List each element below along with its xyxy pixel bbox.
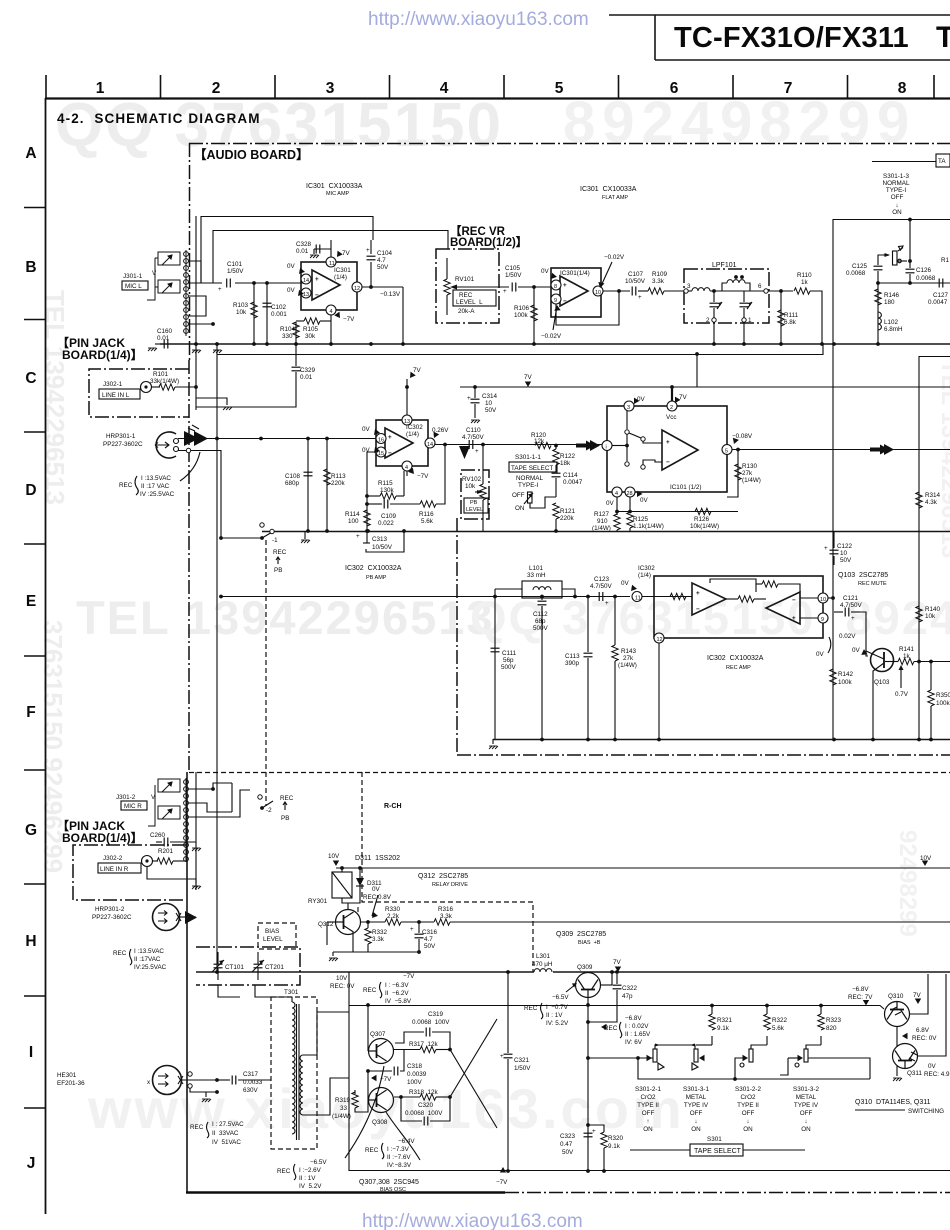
svg-text:TYPE II: TYPE II: [737, 1102, 759, 1109]
svg-text:+: +: [500, 1053, 504, 1060]
svg-text:TYPE-I: TYPE-I: [886, 187, 907, 194]
switch S301-3-2: [798, 1055, 804, 1061]
svg-text:【AUDIO BOARD】: 【AUDIO BOARD】: [194, 147, 309, 162]
svg-text:+: +: [605, 600, 609, 607]
svg-text:10V: 10V: [336, 975, 348, 982]
svg-text:+: +: [388, 434, 392, 441]
svg-text:0V: 0V: [928, 1063, 937, 1070]
svg-text:Q312 2SC2785: Q312 2SC2785: [418, 873, 468, 880]
label -7V pin4: [334, 312, 342, 320]
svg-text:−6.8V: −6.8V: [625, 1015, 642, 1022]
transistor Q312: [336, 910, 361, 935]
wire switch4 feed: [788, 1057, 800, 1059]
ground trunk stubs: [192, 350, 201, 353]
svg-text:4: 4: [405, 465, 408, 471]
connector J301-1 pin chain: [184, 250, 189, 336]
svg-text:1: 1: [748, 317, 752, 324]
svg-text:C121: C121: [843, 595, 859, 602]
svg-text:R317 12k: R317 12k: [409, 1041, 439, 1048]
ic302 rec box: [654, 576, 823, 638]
svg-text:+: +: [592, 1128, 596, 1135]
svg-text:IV:25.5VAC: IV:25.5VAC: [134, 964, 167, 971]
svg-text:ON: ON: [515, 505, 525, 512]
svg-text:7V: 7V: [342, 250, 351, 257]
svg-text:R114: R114: [345, 511, 360, 518]
svg-text:4.7: 4.7: [424, 936, 433, 943]
svg-text:3.3k: 3.3k: [372, 936, 385, 943]
switch S301-2-2: [743, 1055, 749, 1061]
svg-text:−6.5V: −6.5V: [552, 994, 569, 1001]
svg-text:0.02V: 0.02V: [839, 633, 856, 640]
svg-text:HRP301-2: HRP301-2: [95, 906, 125, 913]
svg-text:9: 9: [821, 617, 824, 623]
svg-text:E: E: [26, 593, 36, 610]
pin 9: [818, 613, 828, 623]
svg-text:3: 3: [627, 405, 630, 411]
svg-text:0.7V: 0.7V: [895, 691, 909, 698]
feedback wire top inside box: [710, 579, 756, 592]
svg-text:REC: 4.9: REC: 4.9: [924, 1071, 950, 1078]
audio board bottom edge: [186, 1191, 505, 1193]
svg-text:Q309: Q309: [577, 964, 593, 971]
svg-text:REC: REC: [273, 549, 287, 556]
wire main vertical trunk 2: [216, 344, 218, 972]
svg-text:TEL 13942296513: TEL 13942296513: [76, 591, 495, 644]
switch rec/pb R: [258, 795, 262, 799]
svg-text:REC MUTE: REC MUTE: [858, 581, 887, 587]
wire 10V rail row H-I: [196, 971, 534, 973]
svg-text:ON: ON: [892, 209, 902, 216]
svg-text:C316: C316: [422, 929, 438, 936]
pin 2: [667, 401, 677, 411]
switch S301 rec/pb L contact: [260, 523, 264, 527]
svg-text:REC: REC: [280, 795, 294, 802]
svg-text:4: 4: [440, 80, 449, 97]
svg-text:PB AMP: PB AMP: [366, 575, 387, 581]
label S301-2-2 stack: [735, 1086, 761, 1133]
svg-text:R140: R140: [925, 606, 941, 613]
label REC LEVEL L box: [453, 290, 496, 306]
svg-text:+: +: [315, 276, 319, 283]
op-amp A rec: [692, 583, 726, 615]
wire q309 collector to rail: [601, 984, 612, 986]
svg-text:R121: R121: [560, 508, 576, 515]
svg-text:−: −: [315, 292, 319, 299]
junction dots signal line: [215, 437, 219, 441]
core lines: [296, 1004, 298, 1140]
wire vertical x834: [832, 219, 834, 739]
svg-text:+: +: [696, 590, 700, 597]
svg-text:R141: R141: [899, 646, 915, 653]
svg-text:C322: C322: [622, 985, 638, 992]
wire pb-amp output line: [433, 444, 606, 446]
svg-text:2: 2: [670, 405, 673, 411]
svg-text:0V: 0V: [287, 287, 296, 294]
svg-text:BIAS OSC: BIAS OSC: [380, 1187, 406, 1193]
svg-text:R104: R104: [280, 326, 296, 333]
svg-text:OFF: OFF: [742, 1110, 755, 1117]
svg-text:IV −5.8V: IV −5.8V: [385, 998, 412, 1005]
pin 28: [625, 487, 635, 497]
svg-text:C122: C122: [837, 543, 853, 550]
pin 11: [326, 257, 336, 267]
trim cap 2 in lpf: [743, 291, 745, 302]
svg-text:(1/4W): (1/4W): [592, 525, 611, 532]
svg-text:METAL: METAL: [686, 1094, 707, 1101]
svg-text:0.01: 0.01: [296, 248, 309, 255]
svg-text:0.0039: 0.0039: [407, 1071, 427, 1078]
pin 13: [402, 415, 412, 425]
svg-text:68p: 68p: [535, 618, 546, 625]
svg-text:R319: R319: [335, 1097, 351, 1104]
svg-text:R143: R143: [621, 648, 637, 655]
svg-text:ON: ON: [801, 1126, 811, 1133]
svg-text:C127: C127: [933, 292, 949, 299]
wire return line under bus: [217, 345, 823, 355]
svg-text:7V: 7V: [613, 959, 622, 966]
pin 8: [551, 280, 561, 290]
svg-text:↓: ↓: [746, 1118, 749, 1125]
svg-text:500V: 500V: [501, 664, 517, 671]
junction with r122: [554, 444, 558, 448]
svg-text:C160: C160: [157, 328, 173, 335]
wire q311 base right: [918, 974, 946, 1056]
svg-text:100k: 100k: [936, 700, 950, 707]
head HRP301-2 symbol: [153, 904, 180, 931]
svg-text:20k-A: 20k-A: [458, 308, 475, 315]
potentiometer RV102: [482, 445, 484, 485]
svg-text:CrO2: CrO2: [640, 1094, 656, 1101]
svg-text:IV 5.2V: IV 5.2V: [299, 1183, 322, 1190]
mic jack R switch contacts: [148, 779, 180, 826]
svg-text:C318: C318: [407, 1063, 423, 1070]
transistor Q308: [369, 1088, 394, 1113]
svg-text:TC-FX31O/FX311: TC-FX31O/FX311: [674, 22, 909, 54]
svg-text:J302-2: J302-2: [103, 855, 123, 862]
pin 4: [612, 487, 622, 497]
input switch contacts: [625, 430, 629, 434]
svg-text:R322: R322: [772, 1017, 788, 1024]
svg-text:4.7/50V: 4.7/50V: [590, 583, 613, 590]
svg-text:220k: 220k: [331, 480, 346, 487]
svg-text:TAPE SELECT: TAPE SELECT: [511, 465, 553, 472]
svg-text:OFF: OFF: [642, 1110, 655, 1117]
svg-text:R320: R320: [608, 1135, 624, 1142]
wire q103 base route: [860, 612, 868, 656]
svg-text:+: +: [792, 615, 796, 622]
transistor Q307: [369, 1039, 394, 1064]
svg-text:0.0047: 0.0047: [928, 299, 948, 306]
svg-text:http://www.xiaoyu163.com: http://www.xiaoyu163.com: [368, 9, 589, 30]
svg-text:−: −: [666, 459, 670, 466]
svg-text:RV101: RV101: [455, 276, 475, 283]
svg-text:i: i: [606, 445, 607, 451]
svg-text:R321: R321: [717, 1017, 733, 1024]
svg-text:C102: C102: [271, 304, 287, 311]
svg-text:II : 1.65V: II : 1.65V: [625, 1031, 651, 1038]
svg-text:BOARD(1/4)】: BOARD(1/4)】: [62, 830, 143, 845]
svg-text:−7V: −7V: [343, 316, 355, 323]
svg-text:C319: C319: [428, 1011, 444, 1018]
svg-text:7: 7: [784, 80, 793, 97]
switch S301-2-1: [647, 1055, 653, 1061]
svg-text:R127: R127: [594, 511, 610, 518]
op-amp triangle ic101: [662, 430, 698, 470]
svg-text:−0.02V: −0.02V: [604, 254, 625, 261]
svg-text:↑: ↑: [646, 1118, 649, 1125]
wire feedback top loop: [201, 217, 373, 284]
svg-text:0V: 0V: [541, 268, 550, 275]
svg-text:OFF: OFF: [512, 492, 525, 499]
svg-text:REC: REC: [459, 292, 473, 299]
svg-text:10k: 10k: [925, 613, 936, 620]
svg-text:REC: REC: [277, 1168, 291, 1175]
svg-text:9.1k: 9.1k: [717, 1025, 730, 1032]
svg-text:PB: PB: [470, 500, 478, 506]
svg-text:LINE IN L: LINE IN L: [102, 392, 130, 399]
svg-text:R323: R323: [826, 1017, 842, 1024]
op-amp B rec facing left: [766, 592, 800, 624]
pin 4: [402, 461, 412, 471]
svg-text:PP227-3602C: PP227-3602C: [92, 914, 132, 921]
svg-text:-2: -2: [266, 807, 272, 814]
svg-text:10: 10: [840, 550, 848, 557]
svg-text:10k: 10k: [236, 309, 247, 316]
wire mic connector stubs: [188, 261, 201, 283]
wire relay to q312: [342, 898, 360, 903]
leader curve q307: [345, 1066, 384, 1158]
svg-text:PP227-3602C: PP227-3602C: [103, 441, 143, 448]
svg-text:0V: 0V: [606, 500, 615, 507]
wire pin10 output: [603, 290, 630, 292]
svg-text:MIC L: MIC L: [125, 283, 142, 290]
svg-text:10V: 10V: [328, 853, 340, 860]
svg-text:1/50V: 1/50V: [505, 272, 522, 279]
svg-text:892498299: 892498299: [563, 90, 916, 155]
svg-text:C105: C105: [505, 265, 521, 272]
svg-text:Q307,308 2SC945: Q307,308 2SC945: [359, 1179, 419, 1186]
svg-text:C260: C260: [150, 832, 166, 839]
svg-text:(1/4): (1/4): [406, 431, 419, 438]
svg-text:J301-2: J301-2: [116, 794, 136, 801]
label -7V pin4: [406, 471, 408, 476]
wire row D lower bus: [262, 531, 950, 533]
svg-text:OFF: OFF: [891, 194, 904, 201]
diode D311: [359, 868, 361, 898]
wire pin4 down: [330, 315, 332, 344]
svg-text:10/50V: 10/50V: [625, 278, 646, 285]
svg-text:28: 28: [627, 491, 633, 497]
svg-text:33k(1/4W): 33k(1/4W): [150, 378, 179, 385]
svg-text:II :17 VAC: II :17 VAC: [141, 483, 170, 490]
svg-text:NORMAL: NORMAL: [883, 180, 910, 187]
svg-text:http://www.xiaoyu163.com: http://www.xiaoyu163.com: [362, 1211, 583, 1230]
svg-text:R314: R314: [925, 492, 941, 499]
svg-text:0V: 0V: [621, 580, 630, 587]
svg-text:HRP301-1: HRP301-1: [106, 433, 136, 440]
label S301-3-2 stack: [793, 1086, 819, 1133]
svg-text:I : 0.02V: I : 0.02V: [625, 1023, 649, 1030]
svg-text:30k: 30k: [305, 333, 316, 340]
svg-text:100k: 100k: [514, 312, 529, 319]
wire q312 collector: [357, 907, 359, 912]
wire c122 column: [833, 531, 835, 548]
svg-text:0.0068 100V: 0.0068 100V: [412, 1019, 450, 1026]
svg-text:CT201: CT201: [265, 964, 284, 971]
svg-text:RV102: RV102: [462, 476, 482, 483]
svg-text:0V: 0V: [637, 396, 646, 403]
svg-text:100k: 100k: [838, 679, 853, 686]
svg-text:J301-1: J301-1: [123, 273, 143, 280]
svg-text:9.1k: 9.1k: [608, 1143, 621, 1150]
svg-text:0.0068 100V: 0.0068 100V: [405, 1110, 443, 1117]
svg-text:6: 6: [670, 80, 679, 97]
wire pin10 to c122 column: [828, 597, 833, 599]
svg-text:R146: R146: [884, 292, 900, 299]
svg-text:TEL 13942296513: TEL 13942296513: [40, 290, 70, 505]
svg-text:D311 1SS202: D311 1SS202: [355, 855, 400, 862]
svg-text:I : 27.5VAC: I : 27.5VAC: [212, 1121, 244, 1128]
svg-text:NORMAL: NORMAL: [516, 475, 543, 482]
svg-text:I: I: [29, 1044, 33, 1061]
svg-text:5.6k: 5.6k: [772, 1025, 785, 1032]
op-amp IC301 (1/4) mic: [301, 262, 357, 310]
svg-text:(1/4W): (1/4W): [332, 1113, 351, 1120]
svg-text:IC302: IC302: [638, 565, 655, 572]
pin jack board 2 outline: [73, 845, 186, 900]
wire c112 down to bus: [541, 606, 543, 739]
svg-text:2: 2: [212, 80, 221, 97]
svg-text:PB: PB: [281, 815, 289, 822]
svg-text:EF201-36: EF201-36: [57, 1080, 85, 1087]
inductor L in lpf: [692, 288, 710, 291]
svg-text:REC: 7V: REC: 7V: [848, 994, 873, 1001]
svg-text:R106: R106: [514, 305, 530, 312]
svg-text:C328: C328: [296, 241, 312, 248]
svg-text:S301-3-2: S301-3-2: [793, 1086, 819, 1093]
wire tape select link: [872, 161, 936, 163]
r-ch bottom solid line: [349, 1170, 950, 1172]
svg-text:0V: 0V: [640, 497, 649, 504]
svg-text:27k: 27k: [623, 655, 634, 662]
svg-text:50V: 50V: [377, 264, 389, 271]
svg-text:C123: C123: [594, 576, 610, 583]
svg-text:4.7/50V: 4.7/50V: [840, 602, 863, 609]
wire q103 column to bus: [872, 695, 874, 739]
svg-text:680p: 680p: [285, 480, 300, 487]
pin 16: [376, 434, 386, 444]
wire vertical x495 C111 branch: [494, 596, 496, 739]
svg-text:−6.4V: −6.4V: [398, 1138, 415, 1145]
svg-text:REC: REC: [190, 1124, 204, 1131]
svg-text:0.01: 0.01: [300, 374, 313, 381]
svg-text:(1/4W): (1/4W): [618, 662, 637, 669]
svg-text:(1/4): (1/4): [334, 274, 347, 281]
svg-text:REC: REC: [365, 1147, 379, 1154]
svg-text:OFF: OFF: [800, 1110, 813, 1117]
svg-text:+: +: [410, 926, 414, 933]
svg-text:50V: 50V: [840, 557, 852, 564]
svg-text:TA: TA: [938, 158, 946, 165]
pin 10: [818, 593, 828, 603]
svg-text:6: 6: [758, 283, 762, 290]
svg-text:R318 12k: R318 12k: [409, 1089, 439, 1096]
svg-text:CT101: CT101: [225, 964, 244, 971]
svg-text:R113: R113: [331, 473, 346, 480]
svg-text:IV: 5.2V: IV: 5.2V: [546, 1020, 569, 1027]
signal arrow into ic101: [576, 440, 600, 451]
svg-text:−: −: [792, 597, 796, 604]
svg-text:R111: R111: [784, 312, 799, 319]
svg-text:II :17VAC: II :17VAC: [134, 956, 161, 963]
pin 12: [654, 633, 664, 643]
svg-text:D: D: [25, 482, 36, 499]
svg-text:TYPE II: TYPE II: [637, 1102, 659, 1109]
svg-text:3.3k: 3.3k: [652, 278, 665, 285]
svg-text:R126: R126: [694, 516, 710, 523]
svg-text:L301: L301: [536, 953, 551, 960]
svg-text:7V: 7V: [524, 374, 533, 381]
bias box left edge: [348, 972, 350, 1171]
svg-text:J: J: [27, 1155, 36, 1172]
svg-text:0.47: 0.47: [560, 1141, 573, 1148]
svg-text:220k: 220k: [560, 515, 575, 522]
junction dots rail y387: [405, 385, 409, 389]
wire q312 base left: [327, 921, 336, 923]
wire row net y511: [617, 511, 738, 513]
wire L-ch signal line: [182, 438, 377, 440]
svg-text:12: 12: [354, 286, 360, 292]
svg-text:33 mH: 33 mH: [527, 572, 546, 579]
svg-text:7V: 7V: [413, 367, 422, 374]
svg-text:II :−7.6V: II :−7.6V: [387, 1154, 411, 1161]
svg-text:4.7/50V: 4.7/50V: [462, 434, 485, 441]
svg-text:7V: 7V: [913, 992, 922, 999]
svg-text:R201: R201: [158, 848, 174, 855]
ground rail q312: [333, 951, 420, 953]
svg-text:5: 5: [555, 80, 564, 97]
wire c323 column: [587, 1058, 589, 1171]
svg-text:4.3k: 4.3k: [925, 499, 938, 506]
junction dots on ground bus: [540, 738, 544, 742]
relay RY301: [332, 872, 352, 898]
wire stub to ground right of jack: [196, 398, 227, 405]
wire 7V rail row C: [460, 386, 950, 388]
svg-text:+: +: [467, 395, 471, 402]
svg-text:92498299: 92498299: [894, 830, 921, 937]
shield arrows hrp2: [185, 911, 197, 924]
transistor Q310: [885, 1002, 910, 1027]
svg-text:REC: REC: [113, 950, 127, 957]
svg-text:C321: C321: [514, 1057, 530, 1064]
head HE301 symbol: [153, 1066, 182, 1095]
svg-text:0V: 0V: [287, 263, 296, 270]
svg-text:1.1k(1/4W): 1.1k(1/4W): [633, 523, 664, 530]
svg-text:0.0068: 0.0068: [916, 275, 936, 282]
transistor Q311: [893, 1044, 918, 1069]
wire lpf out: [768, 290, 793, 292]
svg-text:16: 16: [378, 438, 384, 444]
svg-text:MIC R: MIC R: [124, 803, 142, 810]
svg-text:1/50V: 1/50V: [227, 268, 244, 275]
svg-text:6.8k: 6.8k: [784, 319, 797, 326]
svg-text:−7V: −7V: [417, 473, 429, 480]
svg-text:(1/4W): (1/4W): [742, 477, 761, 484]
svg-text:330: 330: [282, 333, 293, 340]
svg-text:BOARD(1/4)】: BOARD(1/4)】: [62, 347, 143, 362]
ground stub on bus: [301, 540, 310, 543]
svg-text:0.001: 0.001: [271, 311, 287, 318]
